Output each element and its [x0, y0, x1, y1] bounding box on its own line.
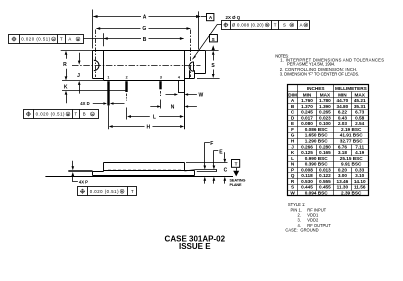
svg-text:STYLE 1:: STYLE 1: [288, 202, 306, 207]
svg-text:0.445: 0.445 [301, 185, 313, 190]
svg-text:3.00: 3.00 [338, 173, 348, 178]
lead 4 [179, 81, 185, 93]
svg-text:6.22: 6.22 [338, 110, 348, 115]
svg-text:0.100: 0.100 [319, 121, 331, 126]
svg-text:W: W [290, 190, 295, 195]
svg-text:G: G [291, 133, 295, 138]
svg-text:25.15 BSC: 25.15 BSC [340, 156, 364, 161]
dimension W [166, 94, 197, 96]
horizontal centerline [72, 65, 201, 67]
mounting hole right (slot) [189, 62, 194, 78]
svg-text:N: N [171, 104, 175, 110]
svg-text:A: A [143, 14, 147, 20]
svg-text:0.020 (0.51): 0.020 (0.51) [90, 189, 119, 194]
lead 2 [125, 81, 127, 92]
svg-text:T: T [74, 112, 77, 117]
svg-text:ISSUE E: ISSUE E [179, 242, 211, 251]
svg-text:1.290 BSC: 1.290 BSC [305, 138, 329, 143]
svg-text:2: 2 [126, 75, 128, 79]
svg-text:MIN: MIN [338, 92, 347, 97]
svg-text:34.80: 34.80 [337, 104, 349, 109]
datum S box and leader triangle [210, 35, 218, 42]
svg-text:Ø 0.008 (0.20): Ø 0.008 (0.20) [232, 23, 264, 28]
svg-text:R: R [291, 179, 295, 184]
svg-text:GROUND: GROUND [300, 227, 318, 232]
dimension E [214, 151, 219, 166]
dimension H [113, 126, 180, 128]
svg-text:3.10: 3.10 [355, 173, 365, 178]
svg-text:0.20: 0.20 [338, 167, 348, 172]
svg-text:35.31: 35.31 [354, 104, 366, 109]
svg-text:K: K [64, 85, 68, 91]
svg-text:1.760: 1.760 [301, 98, 313, 103]
svg-text:3. DIMENSION “F” TO CENTER OF: 3. DIMENSION “F” TO CENTER OF LEADS. [280, 71, 360, 76]
svg-text:0.086 BSC: 0.086 BSC [305, 127, 329, 132]
svg-text:0.017: 0.017 [301, 115, 313, 120]
svg-text:0.455: 0.455 [319, 185, 331, 190]
svg-text:DIM: DIM [288, 92, 297, 97]
svg-text:9.91 BSC: 9.91 BSC [341, 162, 362, 167]
hidden lead line inside cap [108, 169, 181, 171]
dimension N [150, 106, 197, 108]
feature control frame 3: position 0.020 T [78, 187, 137, 196]
cap edge verticals [104, 51, 185, 130]
dimension R [61, 50, 93, 52]
svg-text:0.265: 0.265 [319, 110, 331, 115]
svg-text:0.555: 0.555 [319, 179, 331, 184]
svg-text:K: K [291, 150, 295, 155]
svg-text:1.650 BSC: 1.650 BSC [305, 133, 329, 138]
svg-text:0.080: 0.080 [301, 121, 313, 126]
svg-text:T: T [60, 37, 63, 42]
svg-text:0.122: 0.122 [319, 173, 331, 178]
svg-text:L: L [291, 156, 294, 161]
svg-text:A: A [291, 98, 295, 103]
svg-text:0.008: 0.008 [301, 167, 313, 172]
svg-text:B: B [143, 37, 147, 43]
cap side view [104, 163, 185, 172]
dimension F [205, 143, 210, 167]
svg-text:0.266: 0.266 [301, 144, 313, 149]
FCF4 leader to hole Q [193, 25, 222, 60]
svg-text:L: L [153, 115, 156, 121]
svg-text:INCHES: INCHES [307, 86, 325, 91]
svg-text:11.56: 11.56 [354, 185, 366, 190]
datum T box and triangle [232, 160, 240, 168]
svg-text:6.73: 6.73 [355, 110, 365, 115]
svg-text:T: T [274, 23, 277, 28]
dimension table [288, 85, 369, 196]
svg-text:2.03: 2.03 [338, 121, 348, 126]
datum A box and leader [201, 16, 207, 18]
svg-text:D: D [291, 115, 295, 120]
svg-text:0.33: 0.33 [355, 167, 365, 172]
dimension C [224, 152, 226, 159]
svg-text:MILLIMETERS: MILLIMETERS [335, 86, 367, 91]
svg-text:G: G [142, 26, 146, 32]
cap top extension line [186, 162, 228, 164]
feature control frame 1: position 0.020 T A [9, 35, 84, 44]
package body outline top view [93, 51, 206, 81]
svg-text:0.165: 0.165 [319, 150, 331, 155]
svg-text:3.: 3. [297, 218, 300, 223]
left lead side view [69, 171, 93, 172]
svg-text:F: F [210, 141, 213, 147]
svg-text:2.39 BSC: 2.39 BSC [341, 190, 362, 195]
hole centerline left [95, 30, 97, 78]
svg-text:B: B [291, 104, 295, 109]
svg-text:E: E [291, 121, 294, 126]
svg-text:0.245: 0.245 [301, 110, 313, 115]
svg-text:T: T [235, 162, 238, 167]
svg-text:0.020 (0.51): 0.020 (0.51) [36, 112, 65, 117]
svg-text:S: S [212, 37, 215, 42]
dimension L [131, 116, 180, 118]
dimension B [103, 33, 105, 46]
svg-text:6.76: 6.76 [338, 144, 348, 149]
svg-text:0.280: 0.280 [319, 144, 331, 149]
hole centerline right [190, 30, 192, 78]
svg-text:S: S [283, 23, 286, 28]
svg-text:2X Ø Q: 2X Ø Q [226, 15, 241, 20]
feature control frame 2: position 0.020 T B [24, 110, 99, 119]
svg-text:H: H [146, 125, 150, 131]
svg-text:P: P [291, 167, 294, 172]
svg-text:0.118: 0.118 [301, 173, 313, 178]
svg-text:S: S [291, 185, 294, 190]
right lead side view [185, 170, 217, 172]
svg-text:A: A [300, 23, 303, 28]
svg-text:0.43: 0.43 [338, 115, 348, 120]
svg-text:45.21: 45.21 [354, 98, 366, 103]
svg-text:0.020 (0.51): 0.020 (0.51) [21, 37, 50, 42]
svg-text:0.390 BSC: 0.390 BSC [305, 162, 329, 167]
dimension A [93, 10, 199, 50]
svg-text:J: J [291, 144, 294, 149]
svg-text:A: A [209, 15, 213, 20]
svg-text:W: W [199, 93, 204, 99]
svg-text:E: E [219, 149, 223, 155]
dimension P 4X [72, 161, 74, 167]
svg-text:S: S [211, 63, 215, 69]
svg-text:2.54: 2.54 [355, 121, 365, 126]
svg-text:C: C [224, 167, 228, 173]
svg-text:F: F [291, 127, 294, 132]
svg-text:4.19: 4.19 [355, 150, 365, 155]
svg-text:0.58: 0.58 [355, 115, 365, 120]
lead 3 [159, 81, 161, 89]
svg-text:3: 3 [160, 75, 162, 79]
svg-text:44.70: 44.70 [337, 98, 349, 103]
svg-text:PER ASME Y14.5M, 1994.: PER ASME Y14.5M, 1994. [287, 62, 335, 67]
svg-text:0.990 BSC: 0.990 BSC [305, 156, 329, 161]
dimension G [96, 28, 190, 30]
dimension J [79, 53, 81, 94]
svg-text:VDD2: VDD2 [307, 218, 319, 223]
dimension K [62, 81, 127, 91]
svg-text:1.780: 1.780 [319, 98, 331, 103]
flange side view [93, 171, 195, 176]
svg-text:0.094 BSC: 0.094 BSC [305, 190, 329, 195]
svg-text:0.530: 0.530 [301, 179, 313, 184]
svg-text:R: R [63, 62, 67, 68]
svg-text:0.013: 0.013 [319, 167, 331, 172]
svg-text:1.390: 1.390 [319, 104, 331, 109]
svg-text:7.11: 7.11 [355, 144, 364, 149]
svg-text:J: J [77, 73, 80, 79]
svg-text:A: A [68, 37, 71, 42]
mounting hole left [94, 60, 99, 70]
svg-text:1.370: 1.370 [301, 104, 313, 109]
svg-text:PLANE: PLANE [230, 183, 242, 187]
svg-text:CASE:: CASE: [285, 227, 297, 232]
svg-text:H: H [291, 138, 295, 143]
svg-text:N: N [291, 162, 295, 167]
svg-text:32.77 BSC: 32.77 BSC [340, 138, 364, 143]
svg-text:4X P: 4X P [79, 179, 88, 184]
svg-text:2.19 BSC: 2.19 BSC [341, 127, 362, 132]
svg-text:MIN: MIN [303, 92, 312, 97]
svg-text:4X D: 4X D [80, 101, 89, 106]
svg-text:41.91 BSC: 41.91 BSC [340, 133, 364, 138]
svg-text:MAX: MAX [354, 92, 365, 97]
svg-text:1: 1 [107, 75, 109, 79]
svg-text:0.023: 0.023 [319, 115, 331, 120]
svg-text:C: C [291, 110, 295, 115]
seating plane line [45, 176, 233, 178]
svg-text:4: 4 [178, 75, 180, 79]
svg-text:T: T [131, 189, 134, 194]
dimension D 4X [93, 103, 125, 105]
lead 1 [107, 81, 109, 105]
svg-text:Q: Q [291, 173, 295, 178]
svg-text:0.125: 0.125 [301, 150, 313, 155]
dimension S [197, 51, 220, 79]
svg-text:14.10: 14.10 [354, 179, 366, 184]
svg-text:3.18: 3.18 [338, 150, 348, 155]
svg-text:MAX: MAX [320, 92, 331, 97]
feature control frame 4: position dia 0.008 T S A [222, 21, 310, 30]
svg-text:13.46: 13.46 [337, 179, 349, 184]
svg-text:B: B [83, 112, 86, 117]
svg-text:11.30: 11.30 [337, 185, 349, 190]
